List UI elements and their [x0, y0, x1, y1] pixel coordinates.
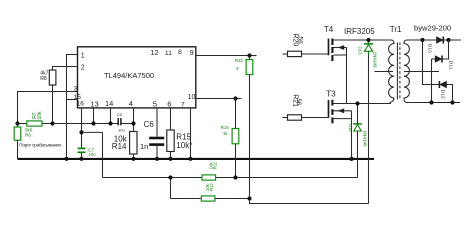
capacitor C6 plates: [149, 137, 164, 140]
wire pin13 down: [93, 108, 95, 124]
transformer Tr1 secondary winding: [404, 40, 409, 103]
svg-text:14: 14: [105, 99, 113, 108]
wire center tap: [375, 71, 394, 73]
svg-text:10k*: 10k*: [176, 141, 192, 150]
svg-text:C6: C6: [144, 120, 155, 129]
svg-text:4: 4: [129, 99, 133, 108]
svg-text:D14: D14: [348, 124, 353, 132]
svg-text:1N4148: 1N4148: [362, 131, 367, 148]
svg-text:16: 16: [77, 101, 85, 108]
svg-text:1n: 1n: [140, 142, 148, 151]
svg-text:10n: 10n: [88, 152, 96, 157]
transformer Tr1 core bars: [396, 43, 398, 100]
transistor T4 source line down: [334, 54, 347, 56]
junction pin16 node: [79, 130, 83, 134]
svg-text:12: 12: [150, 48, 158, 57]
ground rail (thick): [18, 158, 375, 160]
resistor R11 body (green): [202, 175, 216, 180]
junction dot on line3: [247, 196, 251, 200]
resistor R7 body (green): [27, 121, 42, 126]
wire line4 from R22 line down to D13 line: [250, 199, 369, 204]
wire from top tap down to D12: [423, 40, 440, 85]
svg-text:D13: D13: [357, 47, 362, 56]
transistor T3 body arrow: [334, 110, 352, 112]
transistor T3 source line to rail: [334, 118, 352, 120]
svg-text:R16: R16: [221, 125, 230, 130]
junction dot T3 drain line: [355, 101, 359, 105]
capacitor C7 plates (green): [78, 147, 86, 149]
wire pin15 to pin1 line: [67, 99, 78, 101]
wire pin5 down to C6: [156, 108, 158, 137]
svg-text:Порог срабатывания: Порог срабатывания: [19, 143, 61, 149]
wire secondary bottom line: [407, 102, 460, 104]
wire pin2 to R8: [53, 67, 78, 71]
transistor T4 drain line to transformer: [334, 39, 392, 41]
wire line3 supply bus: [171, 198, 250, 200]
svg-text:D10: D10: [427, 44, 433, 53]
diode D11 symbol: [432, 58, 436, 60]
svg-text:R8: R8: [40, 76, 47, 82]
wire D11 anode down to bottom rail: [431, 59, 433, 103]
svg-text:D12: D12: [440, 90, 446, 99]
transistor Q T3 gate bar: [328, 100, 330, 118]
svg-text:6: 6: [167, 99, 171, 108]
wire pin7 down: [190, 108, 192, 159]
svg-text:2: 2: [81, 64, 85, 71]
svg-text:T3: T3: [326, 90, 336, 99]
transistor T3 drain line (primary bottom): [334, 103, 392, 105]
svg-text:8: 8: [178, 49, 182, 56]
svg-text:1: 1: [81, 52, 85, 59]
wire pin3 left and down: [18, 92, 78, 124]
wire pin1 to ground rail: [67, 55, 78, 159]
svg-text:R12: R12: [209, 183, 214, 191]
wire D14 vertical from T3 drain line down to line2: [357, 104, 359, 178]
wire R8 bottom to node: [52, 85, 54, 124]
svg-text:9: 9: [190, 48, 194, 57]
wire secondary middle tap: [404, 71, 439, 73]
svg-text:T4: T4: [324, 25, 334, 34]
svg-text:R6: R6: [25, 133, 31, 138]
wire R7 line with series cap gap: [18, 123, 119, 125]
diode D10 symbol: [437, 37, 443, 43]
transformer Tr1 primary winding: [389, 40, 394, 102]
junction dots on R7 line: [15, 121, 19, 125]
resistor R21 gate resistor: [283, 117, 288, 119]
svg-text:56: 56: [295, 99, 301, 106]
wire secondary top line to output: [407, 39, 461, 41]
svg-text:1k: 1k: [223, 131, 228, 136]
capacitor C5 plates (series, in R7 line): [117, 118, 119, 125]
svg-text:R22: R22: [235, 58, 244, 63]
svg-text:13: 13: [90, 100, 98, 109]
svg-text:IRF3205: IRF3205: [344, 27, 375, 36]
svg-text:10u: 10u: [118, 128, 125, 133]
junction dot top tap: [420, 38, 424, 42]
svg-text:R11: R11: [213, 161, 218, 169]
junction dot D11 anode at bottom: [429, 100, 433, 104]
wire pin9 output: [196, 55, 257, 57]
transformer Tr1 primary bottom bend: [389, 102, 392, 104]
resistor R12 body (green): [201, 196, 215, 201]
junction dot pin9 wire: [247, 53, 251, 57]
junction dot D12 anode at bottom: [450, 100, 454, 104]
svg-text:R14: R14: [112, 142, 127, 151]
resistor R20 gate resistor: [283, 53, 288, 55]
svg-text:11: 11: [165, 50, 172, 57]
diode D12 symbol (points left): [438, 81, 440, 88]
wire line2 feedback bus: [103, 177, 358, 179]
transistor T4 channel segments: [331, 39, 333, 46]
svg-text:1N4148: 1N4148: [372, 52, 377, 69]
junction dot pin10 wire: [233, 96, 237, 100]
diode D13 line (drain rail to center tap, down to line3): [368, 40, 370, 204]
diode D13 symbol (green): [368, 40, 370, 55]
svg-text:Tr1: Tr1: [390, 25, 402, 34]
transistor T3 channel segments: [331, 100, 333, 106]
svg-text:byw29-200: byw29-200: [414, 24, 451, 33]
junction dots on rail: [64, 157, 68, 161]
junction dot D10 cathode: [446, 38, 450, 42]
wire pin10 output: [196, 98, 242, 100]
wire pin4 down through R14: [133, 108, 135, 132]
svg-text:5: 5: [153, 99, 157, 108]
resistor R6 body (green): [17, 124, 19, 128]
transistor T4 body arrow: [334, 47, 347, 49]
resistor R8 body: [49, 70, 56, 85]
wire branch line2 to line3: [170, 178, 172, 199]
svg-text:R7: R7: [32, 112, 38, 119]
wire pin6 down through R15: [170, 108, 172, 130]
resistor R16 (green) below pin10 wire: [235, 99, 237, 129]
diode D14 symbol (green): [353, 123, 362, 125]
svg-text:10: 10: [188, 94, 196, 101]
svg-text:TL494/KA7500: TL494/KA7500: [104, 71, 154, 80]
wire pin16 down: [81, 108, 83, 148]
junction dot D13 at drain rail: [366, 38, 370, 42]
junction dots on line2: [168, 175, 172, 179]
resistor R15 body: [167, 130, 174, 152]
resistor R22 (green) below pin9 wire: [249, 56, 251, 60]
svg-text:C5: C5: [117, 112, 123, 117]
resistor R14 body: [130, 132, 137, 155]
svg-text:56: 56: [297, 37, 304, 45]
wire pin14 down: [110, 108, 112, 124]
svg-text:D11: D11: [447, 61, 453, 70]
transistor Q T4 gate bar: [328, 39, 330, 56]
op-amp U1 TL494/KA7500 IC body: [78, 47, 196, 108]
wire L from pin16 node to line2: [82, 132, 103, 177]
